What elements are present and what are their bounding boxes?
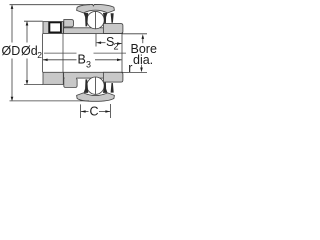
B3 extension line left bbox=[42, 34, 44, 73]
C extension line left bbox=[80, 104, 82, 118]
locking collar top (with set screw) bbox=[43, 22, 63, 34]
ball top bbox=[87, 11, 104, 28]
S2 extension line bbox=[95, 34, 97, 47]
svg-text:2: 2 bbox=[114, 42, 119, 52]
seal top-right bbox=[103, 13, 114, 24]
B3 extension line right bbox=[121, 34, 123, 73]
bore centerline bbox=[44, 52, 77, 54]
dimension Od2 line bbox=[26, 21, 29, 85]
seal bottom-right bbox=[103, 82, 114, 93]
seal top-left bbox=[84, 13, 89, 27]
svg-text:B: B bbox=[78, 53, 86, 67]
collar joint projection line bbox=[62, 34, 64, 73]
svg-text:ØD: ØD bbox=[2, 44, 21, 58]
bore dia up arrow bbox=[142, 34, 145, 43]
B3 dimension line bbox=[43, 59, 122, 62]
dimension OD line bbox=[11, 4, 14, 101]
outer ring bottom (spherical OD section) bbox=[77, 93, 115, 101]
svg-text:Ød: Ød bbox=[21, 44, 38, 58]
bore dia down arrow bbox=[140, 65, 143, 72]
flinger bottom-left bbox=[64, 78, 77, 88]
slinger top-right bbox=[103, 24, 123, 34]
ball bottom bbox=[87, 77, 104, 94]
extension line d2 bottom bbox=[24, 84, 43, 86]
extension line OD bottom bbox=[10, 100, 90, 102]
locking collar bottom bbox=[43, 72, 63, 84]
extension line OD top bbox=[10, 4, 91, 6]
bore bottom extension line bbox=[122, 72, 147, 74]
svg-text:r: r bbox=[128, 61, 132, 75]
bore top extension line bbox=[123, 33, 148, 35]
svg-text:2: 2 bbox=[37, 50, 42, 60]
inner ring top bar bbox=[64, 28, 123, 34]
joint patch bottom (merge collar/flinger/bar) bbox=[65, 77, 77, 79]
svg-text:dia.: dia. bbox=[133, 53, 153, 67]
svg-text:C: C bbox=[90, 105, 99, 119]
C dimension line bbox=[81, 110, 110, 113]
flinger top-left bbox=[64, 20, 74, 29]
S2 dimension line bbox=[97, 41, 122, 45]
slinger bottom-right bbox=[103, 72, 123, 82]
svg-text:3: 3 bbox=[86, 60, 91, 70]
seal bottom-left bbox=[84, 79, 89, 93]
extension line d2 top bbox=[24, 20, 43, 22]
outer ring top (spherical OD section) bbox=[77, 4, 115, 12]
C extension line right bbox=[110, 104, 112, 118]
inner ring bottom bar bbox=[64, 72, 123, 78]
